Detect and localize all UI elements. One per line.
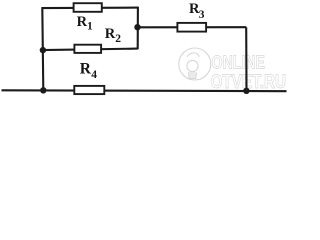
wire left vertical xyxy=(42,7,43,90)
wire top rail xyxy=(42,7,139,10)
resistor R3 xyxy=(177,23,206,32)
svg-text:ONLINE: ONLINE xyxy=(212,52,266,72)
svg-text:4: 4 xyxy=(91,69,97,81)
node junction left-middle xyxy=(40,47,46,53)
wire bottom bus xyxy=(2,89,287,92)
node junction bottom-left xyxy=(40,87,46,93)
wire R3 rail xyxy=(138,26,247,28)
wire right drop to bottom bus xyxy=(245,27,247,91)
label R4 xyxy=(80,61,97,82)
label R3 xyxy=(189,1,205,21)
watermark lightbulb icon xyxy=(179,48,211,80)
node junction R3 tap xyxy=(134,24,140,30)
svg-text:R: R xyxy=(80,61,92,78)
svg-text:3: 3 xyxy=(199,9,205,21)
wire right vertical of parallel section xyxy=(137,7,139,49)
label R2 xyxy=(105,26,121,45)
svg-text:R: R xyxy=(105,26,116,42)
label R1 xyxy=(77,14,93,33)
svg-text:2: 2 xyxy=(115,33,121,45)
node junction bottom-right xyxy=(243,88,249,94)
resistor R1 xyxy=(74,3,102,12)
resistor R4 xyxy=(74,86,104,94)
svg-text:R: R xyxy=(77,14,88,30)
wire middle rail xyxy=(43,49,138,51)
resistor R2 xyxy=(74,45,101,53)
svg-text:1: 1 xyxy=(87,21,93,33)
